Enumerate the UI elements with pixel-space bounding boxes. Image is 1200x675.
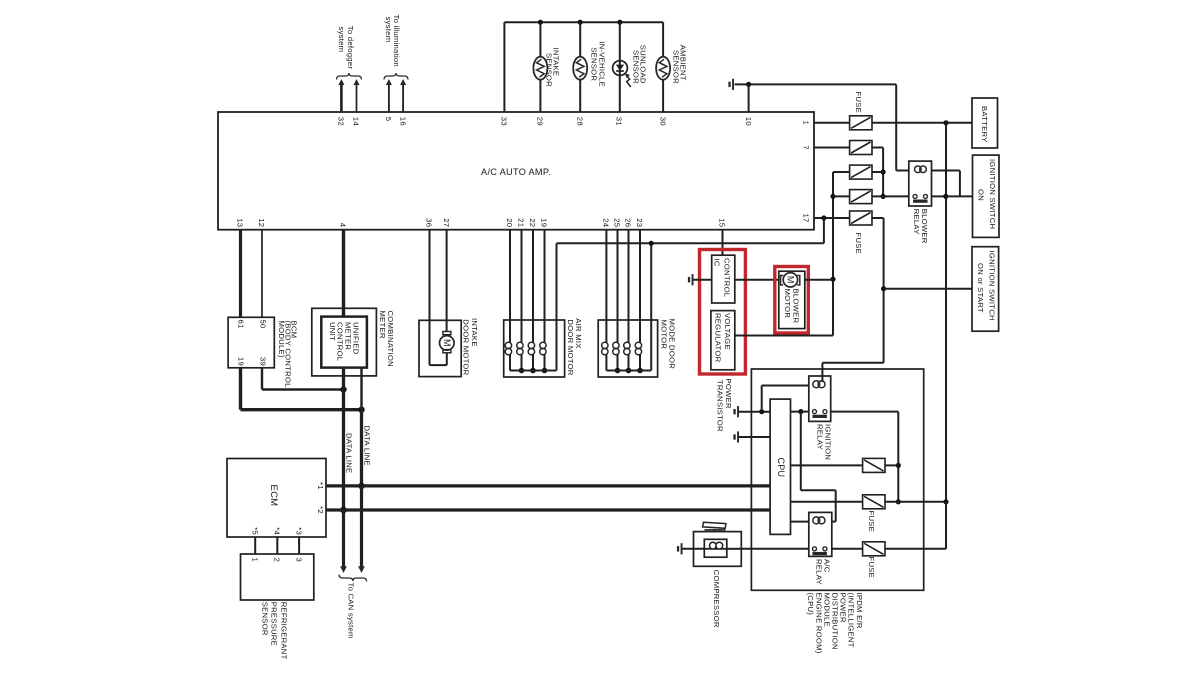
svg-text:*1: *1 xyxy=(316,482,325,490)
svg-text:21: 21 xyxy=(517,218,526,227)
svg-text:MOTOR: MOTOR xyxy=(659,320,668,350)
svg-text:ON or START: ON or START xyxy=(976,263,985,313)
svg-text:10: 10 xyxy=(744,117,753,126)
svg-text:15: 15 xyxy=(718,218,727,227)
svg-text:DATA LINE: DATA LINE xyxy=(363,426,372,466)
svg-text:IC: IC xyxy=(712,259,721,267)
svg-text:27: 27 xyxy=(442,218,451,227)
svg-text:31: 31 xyxy=(615,117,624,126)
svg-text:UNIT: UNIT xyxy=(328,322,337,341)
svg-text:25: 25 xyxy=(613,218,622,227)
svg-text:SENSOR: SENSOR xyxy=(671,50,680,84)
svg-text:IGNITION SWITCH: IGNITION SWITCH xyxy=(987,251,996,321)
svg-text:3: 3 xyxy=(294,558,303,563)
svg-text:23: 23 xyxy=(635,218,644,227)
svg-text:1: 1 xyxy=(250,558,259,563)
svg-text:17: 17 xyxy=(802,213,811,222)
svg-text:24: 24 xyxy=(602,218,611,228)
svg-text:ECM: ECM xyxy=(268,485,279,507)
svg-text:DOOR MOTOR: DOOR MOTOR xyxy=(461,319,470,375)
svg-text:M: M xyxy=(442,339,452,347)
svg-text:7: 7 xyxy=(802,145,811,150)
svg-text:CPU: CPU xyxy=(776,458,786,478)
svg-text:36: 36 xyxy=(425,218,434,227)
svg-text:*5: *5 xyxy=(250,527,259,535)
svg-text:*2: *2 xyxy=(316,506,325,514)
svg-text:FUSE: FUSE xyxy=(867,511,876,533)
svg-text:5: 5 xyxy=(384,117,393,122)
svg-text:4: 4 xyxy=(339,223,348,228)
svg-text:29: 29 xyxy=(536,117,545,126)
svg-text:33: 33 xyxy=(500,117,509,126)
svg-text:SENSOR: SENSOR xyxy=(589,47,598,81)
svg-text:RELAY: RELAY xyxy=(814,559,823,585)
svg-text:32: 32 xyxy=(337,117,346,126)
svg-text:To defogger: To defogger xyxy=(346,26,355,70)
svg-text:30: 30 xyxy=(658,117,667,126)
svg-text:20: 20 xyxy=(505,218,514,227)
svg-text:*4: *4 xyxy=(273,527,282,535)
svg-text:19: 19 xyxy=(237,357,246,366)
svg-text:DOOR MOTOR: DOOR MOTOR xyxy=(566,319,575,375)
svg-text:50: 50 xyxy=(259,320,268,329)
svg-text:22: 22 xyxy=(528,218,537,227)
svg-text:2: 2 xyxy=(273,558,282,563)
svg-text:RELAY: RELAY xyxy=(815,424,824,450)
svg-text:system: system xyxy=(337,27,346,53)
svg-text:REGULATOR: REGULATOR xyxy=(713,313,722,363)
svg-text:COMPRESSOR: COMPRESSOR xyxy=(712,570,721,628)
svg-text:19: 19 xyxy=(540,218,549,227)
svg-text:BATTERY: BATTERY xyxy=(980,106,989,143)
svg-text:ON: ON xyxy=(976,189,985,201)
svg-text:SENSOR: SENSOR xyxy=(632,50,641,84)
svg-text:12: 12 xyxy=(257,218,266,227)
svg-text:61: 61 xyxy=(237,320,246,329)
svg-text:FUSE: FUSE xyxy=(867,557,876,579)
svg-text:13: 13 xyxy=(236,218,245,227)
svg-text:39: 39 xyxy=(259,357,268,366)
svg-text:MODULE): MODULE) xyxy=(277,321,286,358)
svg-text:system: system xyxy=(384,17,393,43)
svg-text:(CPU): (CPU) xyxy=(806,593,815,616)
svg-text:A/C AUTO AMP.: A/C AUTO AMP. xyxy=(481,167,551,177)
svg-text:DATA LINE: DATA LINE xyxy=(345,433,354,473)
svg-text:FUSE: FUSE xyxy=(854,92,863,114)
svg-text:26: 26 xyxy=(624,218,633,227)
svg-text:1: 1 xyxy=(802,121,811,126)
svg-text:MOTOR: MOTOR xyxy=(783,289,792,319)
svg-text:PRESSURE: PRESSURE xyxy=(269,602,278,646)
svg-text:REFRIGERANT: REFRIGERANT xyxy=(279,602,288,660)
svg-text:FUSE: FUSE xyxy=(854,233,863,255)
svg-text:TRANSISTOR: TRANSISTOR xyxy=(715,380,724,432)
svg-text:IGNITION SWITCH: IGNITION SWITCH xyxy=(988,159,997,229)
svg-text:RELAY: RELAY xyxy=(912,209,921,235)
svg-text:CONTROL: CONTROL xyxy=(722,258,731,298)
svg-text:16: 16 xyxy=(398,117,407,126)
svg-text:*3: *3 xyxy=(294,527,303,535)
svg-text:28: 28 xyxy=(575,117,584,126)
svg-text:To CAN system: To CAN system xyxy=(347,583,356,639)
svg-text:SENSOR: SENSOR xyxy=(544,53,553,87)
svg-text:METER: METER xyxy=(378,311,387,339)
svg-text:14: 14 xyxy=(352,117,361,127)
svg-text:VOLTAGE: VOLTAGE xyxy=(723,313,732,350)
svg-text:M: M xyxy=(786,276,796,284)
svg-text:SENSOR: SENSOR xyxy=(260,602,269,636)
